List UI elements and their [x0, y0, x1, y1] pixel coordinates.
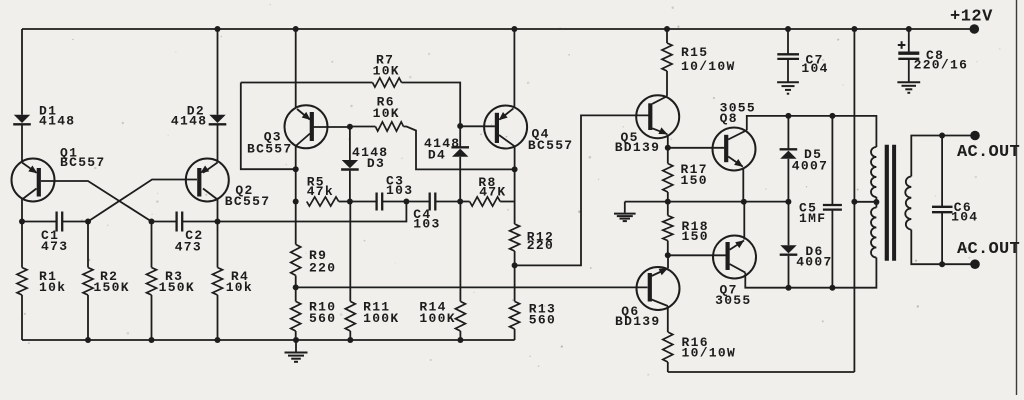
node R5 left	[293, 199, 299, 205]
node rail C7	[785, 26, 791, 32]
transistor Q5	[636, 95, 679, 138]
capacitor C6	[932, 136, 953, 265]
wire bottom ground rail	[22, 339, 515, 341]
ground symbol left	[285, 340, 308, 362]
resistor R11	[345, 202, 355, 341]
svg-text:100K: 100K	[419, 311, 455, 326]
capacitor C5	[823, 116, 842, 288]
node rail R15	[664, 26, 670, 32]
svg-text:4148: 4148	[171, 114, 207, 129]
transistor Q6	[637, 267, 680, 310]
node C6 bottom	[939, 261, 945, 267]
svg-text:560: 560	[529, 312, 556, 327]
svg-text:3055: 3055	[715, 293, 751, 308]
diode D4	[451, 126, 469, 202]
node center tap	[873, 199, 879, 205]
terminal AC.OUT upper	[970, 131, 980, 141]
wire Q8 base row	[668, 147, 725, 149]
wire Q7 base row	[668, 254, 726, 256]
resistor R9	[291, 202, 301, 288]
capacitor C7	[777, 29, 799, 94]
svg-text:10/10W: 10/10W	[681, 59, 736, 74]
capacitor C4	[406, 193, 460, 211]
svg-text:150: 150	[681, 173, 708, 188]
resistor R1	[17, 222, 27, 341]
resistor R4	[213, 222, 223, 341]
resistor R10	[291, 287, 301, 340]
node Q3 collector / box wire	[293, 166, 299, 172]
svg-text:473: 473	[41, 239, 68, 254]
transistor Q8	[713, 128, 756, 171]
resistor R6	[350, 122, 515, 169]
resistor R18	[663, 202, 673, 256]
svg-text:100K: 100K	[363, 311, 399, 326]
wire Q2 base cross-couple	[88, 180, 197, 222]
svg-text:4007: 4007	[796, 255, 832, 270]
resistor R16	[663, 332, 673, 372]
svg-text:103: 103	[413, 217, 440, 232]
node C4 right / D4 bottom / R8 left	[457, 199, 463, 205]
wire secondary bottom to AC.OUT	[911, 230, 975, 265]
transformer T1 primary winding	[871, 147, 876, 258]
node C6 top	[939, 133, 945, 139]
node rail C8	[906, 26, 912, 32]
diode D2	[209, 29, 227, 163]
svg-text:10/10W: 10/10W	[682, 346, 737, 361]
wire Q2 collector to C4 junction	[218, 202, 407, 222]
node D4 top / Q4 base / R7	[457, 123, 463, 129]
node C2 right	[215, 219, 221, 225]
svg-text:+12V: +12V	[950, 7, 993, 26]
wire Q7 collector to row C	[745, 258, 876, 288]
wire Q3 base	[314, 126, 350, 128]
wire R16 bottom rail to +12V column	[668, 371, 855, 373]
node C3 C4 junction	[403, 199, 409, 205]
transistor Q4	[484, 106, 527, 149]
node rail center-tap column	[851, 26, 857, 32]
terminal +12V	[970, 24, 980, 34]
node R17 R18 junction	[665, 199, 671, 205]
node R18 bottom / Q6 emitter / Q7 base	[665, 252, 671, 258]
node Q5 emitter / R17 / Q8 base	[665, 145, 671, 151]
resistor R13	[510, 265, 520, 340]
capacitor C8	[897, 29, 920, 93]
node rail D2	[215, 26, 221, 32]
svg-text:47K: 47K	[479, 185, 506, 200]
diode D3	[341, 127, 359, 202]
svg-text:47k: 47k	[307, 184, 334, 199]
node center tap junction	[851, 199, 857, 205]
wire +12V column down (center tap feed)	[853, 29, 855, 372]
wire Q8 emitter down	[742, 168, 744, 202]
resistor R8	[460, 197, 514, 206]
wire Q4 emitter to rail	[513, 29, 515, 108]
svg-text:10K: 10K	[373, 63, 400, 78]
svg-text:AC.OUT: AC.OUT	[957, 143, 1020, 162]
wire Q7 emitter up	[743, 202, 745, 240]
svg-text:BC557: BC557	[247, 141, 293, 156]
node C5 bottom row C	[829, 285, 835, 291]
wire R12 to Q5 base	[515, 115, 650, 265]
node rail R14	[457, 337, 463, 343]
svg-text:560: 560	[309, 311, 336, 326]
svg-text:104: 104	[801, 61, 828, 76]
resistor R2	[83, 222, 93, 341]
node Q3 base / D3 / R6	[347, 124, 353, 130]
terminal AC.OUT lower	[970, 259, 980, 269]
svg-text:4148: 4148	[39, 114, 75, 129]
wire ground row B	[625, 201, 789, 203]
wire Q3 emitter to rail	[295, 29, 297, 108]
wire Q8 collector to row A	[747, 116, 877, 147]
diode D1	[13, 29, 31, 163]
scan border line right edge	[1016, 0, 1018, 395]
svg-text:103: 103	[386, 183, 413, 198]
svg-text:BD139: BD139	[615, 314, 661, 329]
svg-text:AC.OUT: AC.OUT	[957, 240, 1020, 259]
svg-text:150K: 150K	[159, 280, 195, 295]
svg-text:Q8: Q8	[720, 111, 738, 126]
wire Q5 emitter down	[667, 135, 669, 148]
node rail ground	[293, 337, 299, 343]
svg-text:220: 220	[309, 261, 336, 276]
wire Q3 collector down	[295, 146, 297, 202]
resistor R14	[455, 202, 465, 341]
svg-text:104: 104	[951, 210, 978, 225]
node R9 R10 junction	[293, 284, 299, 290]
ground symbol middle	[614, 202, 636, 222]
node rail R3	[149, 337, 155, 343]
wire feedback box left	[241, 83, 296, 170]
node D6 bottom row C	[786, 285, 792, 291]
diode D5	[780, 116, 798, 202]
transformer T1 core	[885, 145, 889, 261]
node R12 bottom	[512, 262, 518, 268]
capacitor C3	[350, 193, 407, 211]
svg-text:150: 150	[682, 229, 709, 244]
wire secondary top to AC.OUT	[911, 136, 975, 177]
svg-text:4007: 4007	[792, 158, 828, 173]
svg-text:150K: 150K	[93, 280, 129, 295]
wire Q6 collector down to R16	[667, 306, 669, 332]
wire Q1 base cross-couple	[41, 181, 152, 222]
resistor R3	[147, 222, 157, 341]
svg-text:10k: 10k	[226, 280, 253, 295]
svg-text:BC557: BC557	[60, 155, 106, 170]
wire Q6 emitter up	[667, 255, 669, 268]
resistor R17	[663, 148, 673, 202]
svg-text:10K: 10K	[373, 106, 400, 121]
diode D6	[780, 202, 798, 288]
svg-text:10k: 10k	[39, 280, 66, 295]
node C1 right	[85, 219, 91, 225]
wire +12V top rail	[22, 28, 974, 30]
transistor Q2	[186, 159, 229, 222]
node rail R11	[347, 337, 353, 343]
resistor R7	[241, 78, 460, 126]
transistor Q3	[285, 105, 328, 148]
node Q8/Q7 emitters	[741, 199, 747, 205]
node C2 left	[149, 219, 155, 225]
svg-text:1MF: 1MF	[799, 211, 826, 226]
wire Q4 collector column	[514, 146, 516, 224]
node C5 top row A	[829, 113, 835, 119]
node D5 D6 junction	[785, 199, 791, 205]
svg-text:BC557: BC557	[225, 194, 271, 209]
transformer T1 secondary winding	[905, 176, 911, 229]
wire center tap link	[854, 201, 876, 203]
resistor R12	[510, 224, 520, 265]
svg-text:D3: D3	[367, 156, 385, 171]
svg-text:BC557: BC557	[528, 138, 574, 153]
capacitor C1	[22, 212, 88, 232]
svg-text:220/16: 220/16	[914, 58, 969, 73]
node rail R4	[215, 337, 221, 343]
wire Q4 base	[460, 125, 495, 127]
wire Q6 base row	[296, 286, 648, 288]
capacitor C2	[152, 212, 218, 232]
node rail R2	[85, 337, 91, 343]
svg-text:D4: D4	[428, 148, 446, 163]
svg-text:BD139: BD139	[615, 140, 661, 155]
node D5 top row A	[785, 113, 791, 119]
node rail Q3	[293, 26, 299, 32]
node rail Q4	[511, 26, 517, 32]
node D3 bottom / C3 left	[347, 199, 353, 205]
node C1 left	[19, 219, 25, 225]
node Q4 collector / R6 wire	[512, 166, 518, 172]
resistor R15	[662, 43, 672, 96]
transistor Q7	[713, 236, 756, 279]
svg-text:220: 220	[527, 238, 554, 253]
transistor Q1	[12, 159, 55, 222]
resistor R5	[307, 197, 350, 206]
svg-text:473: 473	[175, 240, 202, 255]
